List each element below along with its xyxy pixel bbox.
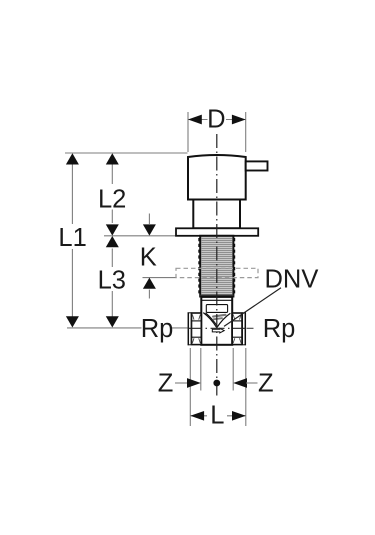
- extension line flange bottom level: [104, 235, 176, 237]
- svg-text:Z: Z: [158, 369, 174, 397]
- dimension L3: [98, 236, 126, 328]
- svg-text:L2: L2: [98, 185, 126, 213]
- dimension Z left: [158, 369, 201, 397]
- svg-text:K: K: [140, 243, 157, 271]
- horizontal centerline stub right of port: [247, 327, 254, 329]
- horizontal centerline across body: [188, 327, 246, 329]
- svg-text:Rp: Rp: [263, 315, 296, 343]
- svg-text:D: D: [207, 106, 225, 134]
- svg-text:DNV: DNV: [265, 265, 319, 293]
- valve bonnet and body column: [201, 297, 232, 345]
- funnel V right: [217, 313, 230, 327]
- left port: [188, 312, 202, 345]
- DNV leader line: [224, 288, 281, 327]
- extension line dashed-box bottom level: [143, 277, 176, 279]
- dimension L2: [98, 153, 126, 235]
- svg-text:Rp: Rp: [141, 315, 174, 343]
- bottom extension lines: [189, 348, 191, 426]
- vertical centerline: [216, 134, 218, 397]
- funnel V left: [203, 313, 216, 328]
- dimension L: [190, 402, 246, 430]
- valve head: [188, 155, 246, 200]
- stamp marks: [212, 314, 227, 321]
- head neck: [193, 200, 240, 229]
- dimension D: [188, 106, 246, 153]
- threaded spindle: [199, 236, 234, 297]
- funnel V left inner wall: [206, 313, 218, 326]
- dimension L1: [58, 153, 86, 327]
- svg-text:L3: L3: [98, 267, 126, 295]
- svg-text:L: L: [210, 402, 224, 430]
- bonnet inner rounded rect: [206, 305, 227, 313]
- center dot: [213, 380, 220, 387]
- svg-text:L1: L1: [58, 224, 86, 252]
- spindle end band: [200, 295, 233, 297]
- extension line port centerline left: [67, 327, 142, 329]
- extension line port centerline (between Rp label and left port): [171, 327, 188, 329]
- bonnet line: [201, 299, 232, 301]
- spindle thread lines: [201, 239, 232, 295]
- extension line top (head top level): [65, 152, 188, 154]
- dimension Z right: [233, 369, 273, 397]
- head side tab: [246, 161, 268, 170]
- flange plate: [176, 228, 258, 236]
- flow arrow: [212, 328, 224, 333]
- dimension K: [140, 214, 157, 299]
- svg-text:Z: Z: [258, 369, 274, 397]
- right port: [232, 312, 246, 345]
- dashed position box: [176, 268, 258, 277]
